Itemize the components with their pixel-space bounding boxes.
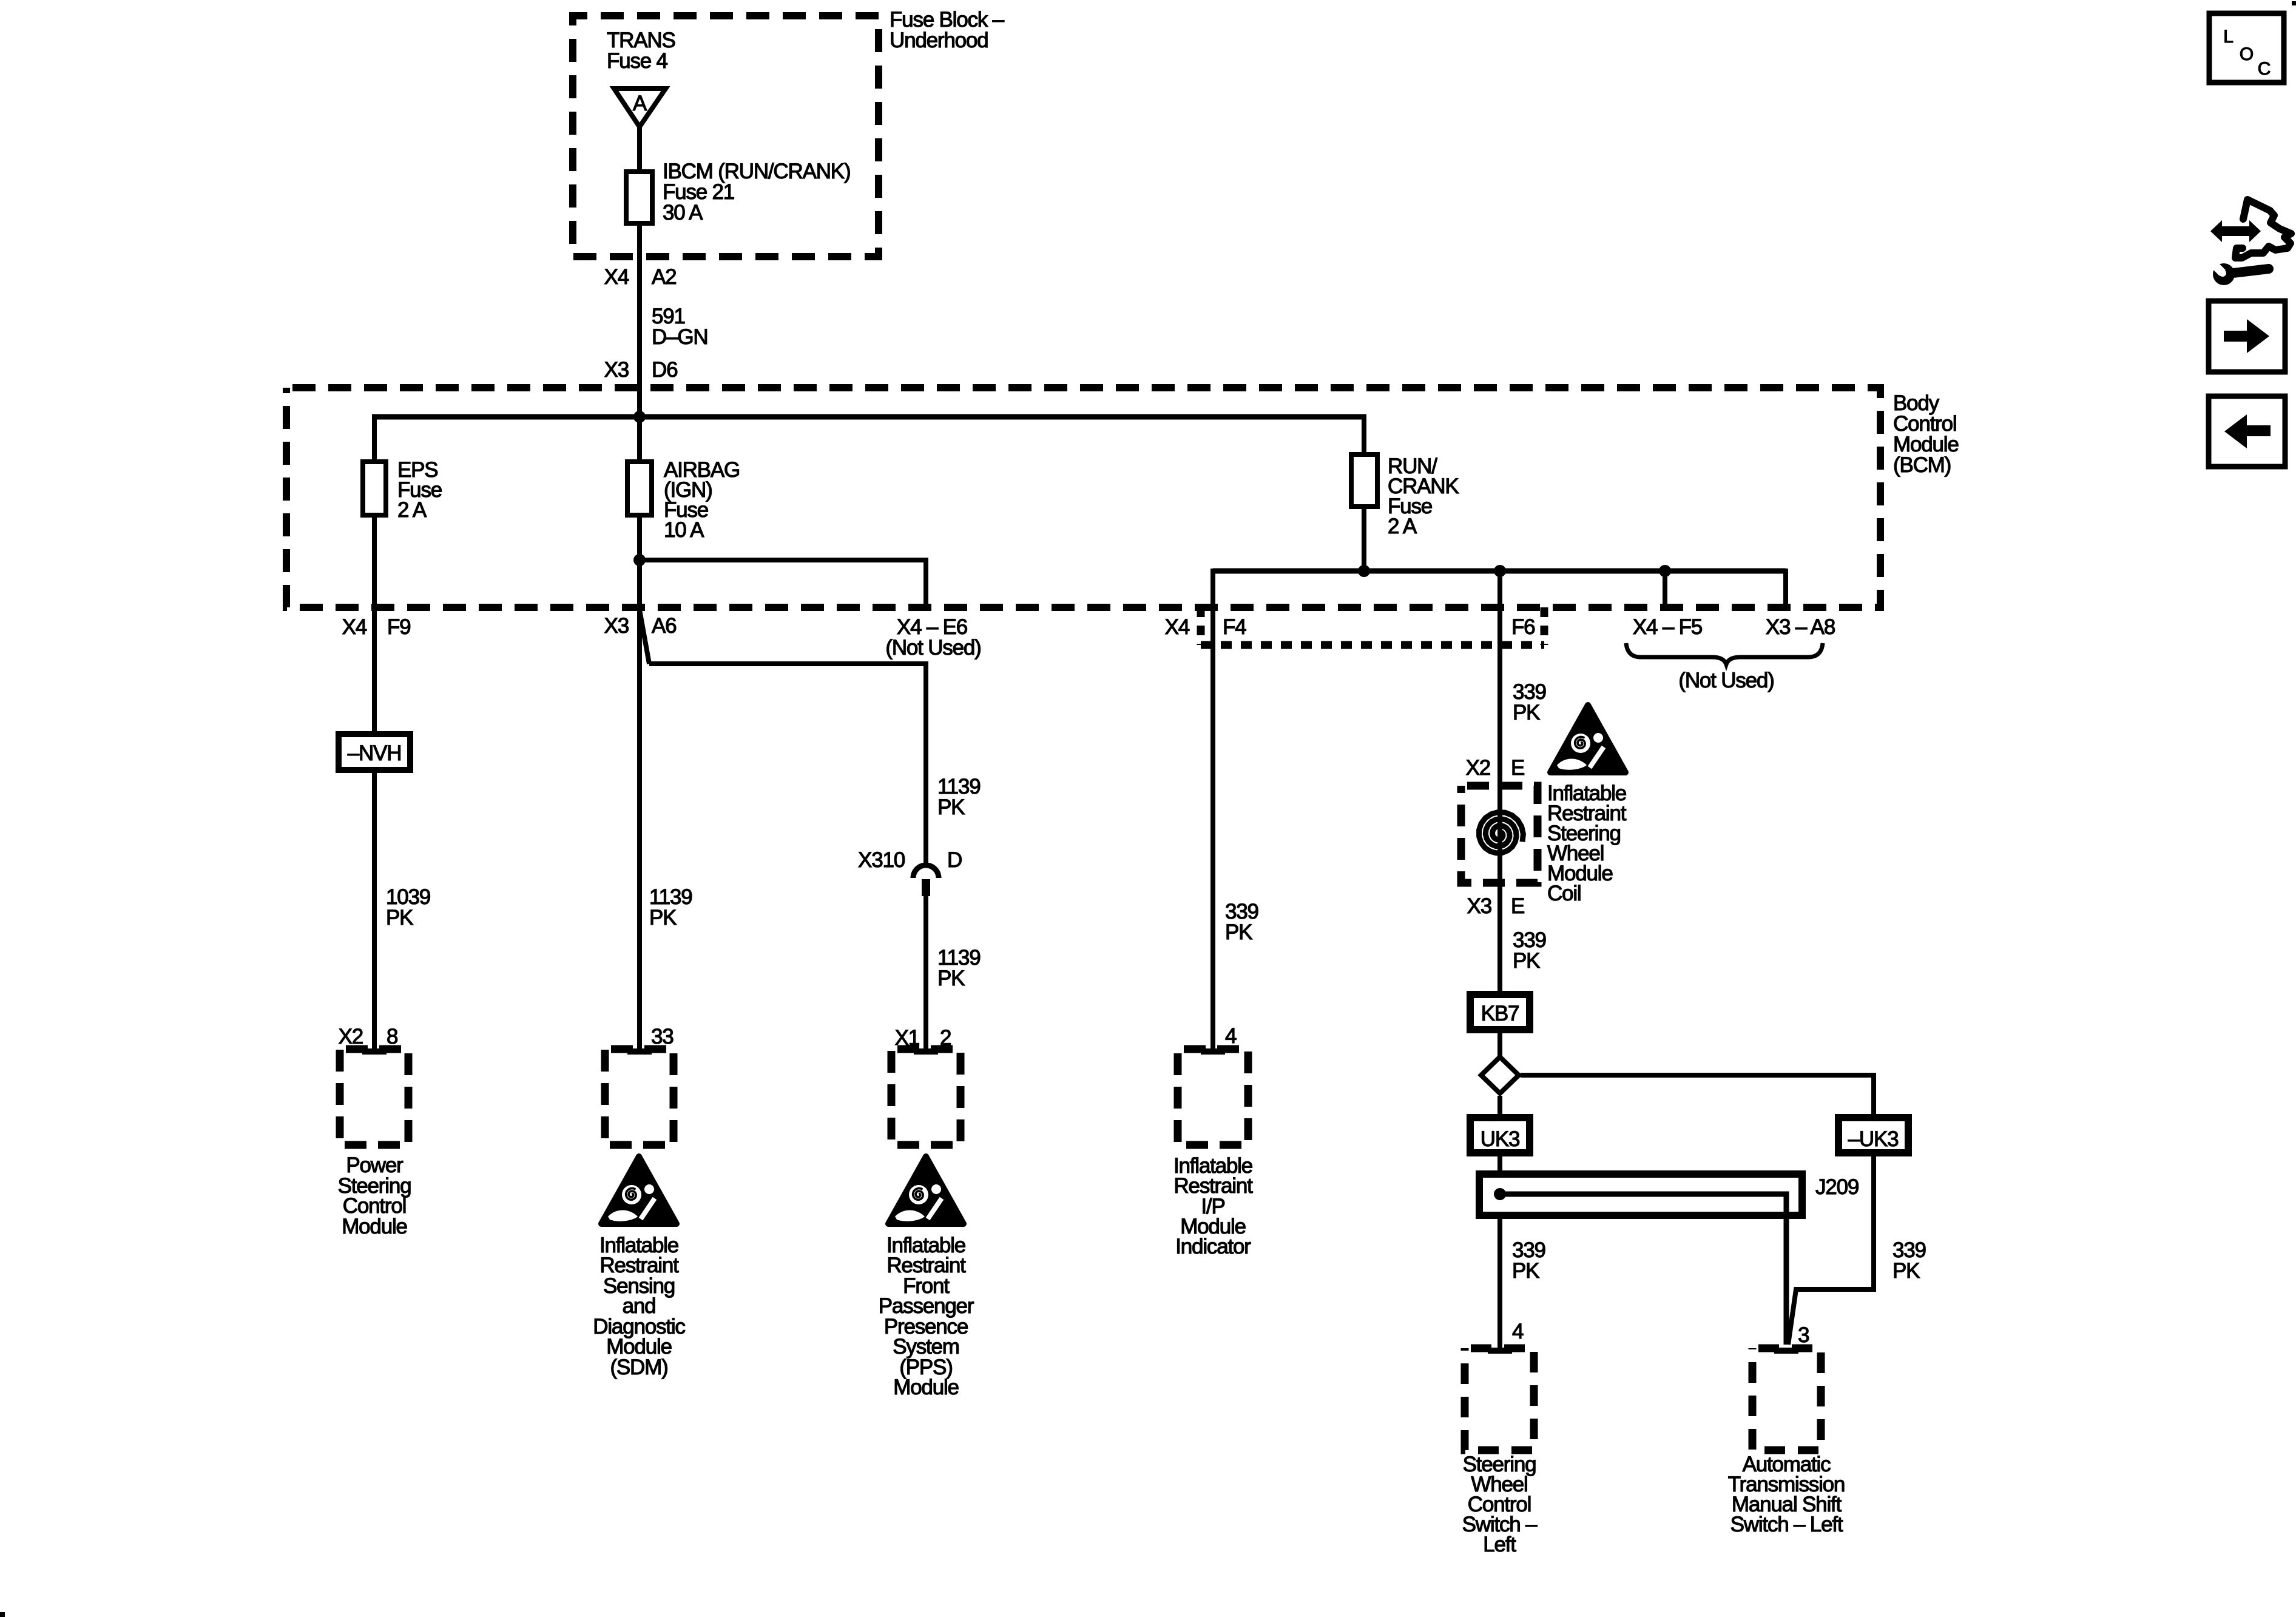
- inflatable restraint I/P module indicator dashed box: [1178, 1049, 1248, 1145]
- connector dotted separator left: [1197, 607, 1205, 645]
- svg-text:Module: Module: [893, 1376, 959, 1399]
- svg-text:(SDM): (SDM): [610, 1355, 667, 1379]
- SDM connector pin tick: [627, 1048, 652, 1055]
- svg-text:3: 3: [1798, 1323, 1809, 1347]
- service tools icon (wrench): [2213, 263, 2235, 285]
- svg-text:4: 4: [1225, 1024, 1237, 1048]
- svg-text:(BCM): (BCM): [1893, 453, 1951, 477]
- wire X310 to PPS module: [923, 896, 928, 1050]
- svg-text:F9: F9: [387, 615, 410, 639]
- coil spiral symbol: [1479, 812, 1524, 853]
- wire KB7 to diamond: [1497, 1030, 1502, 1057]
- automatic transmission manual shift switch dashed box: [1752, 1348, 1821, 1450]
- svg-text:X4: X4: [342, 615, 367, 639]
- wire -UK3 to shift switch pin 3: [1788, 1153, 1874, 1345]
- svg-text:Switch – Left: Switch – Left: [1730, 1513, 1843, 1536]
- wire diamond to UK3: [1497, 1096, 1502, 1120]
- svg-text:A6: A6: [652, 614, 676, 638]
- svg-text:UK3: UK3: [1481, 1127, 1520, 1151]
- in-line connector X310 arc: [913, 865, 939, 878]
- svg-text:33: 33: [651, 1025, 674, 1048]
- next page arrow box: [2209, 301, 2285, 372]
- svg-text:C: C: [2258, 59, 2271, 79]
- svg-text:PK: PK: [1893, 1259, 1920, 1283]
- svg-text:PK: PK: [1512, 1259, 1539, 1283]
- wire sub-bus to I/P indicator (F4): [1210, 569, 1215, 1050]
- sub-bus wire: [1213, 569, 1786, 574]
- svg-text:X4: X4: [604, 265, 629, 289]
- svg-text:F6: F6: [1511, 615, 1535, 639]
- svg-text:E: E: [1511, 894, 1524, 918]
- svg-text:E: E: [1511, 756, 1524, 780]
- svg-text:–UK3: –UK3: [1848, 1127, 1899, 1151]
- svg-text:PK: PK: [386, 906, 413, 930]
- option box -NVH: [339, 734, 410, 770]
- svg-text:X3: X3: [604, 614, 629, 638]
- svg-text:X2: X2: [1466, 756, 1490, 780]
- fuse F21 IBCM RUN/CRANK 30A: [626, 172, 652, 223]
- brace under not-used stubs: [1626, 643, 1823, 664]
- junction node below airbag fuse: [633, 554, 646, 566]
- page corner mark top right: [2292, 1, 2296, 5]
- junction node under RUN/CRANK fuse: [1358, 565, 1370, 577]
- svg-text:–NVH: –NVH: [348, 741, 402, 765]
- svg-text:X4 – F5: X4 – F5: [1633, 615, 1702, 639]
- steering wheel module coil dashed box: [1461, 786, 1538, 883]
- steering wheel control switch dashed box: [1465, 1348, 1534, 1450]
- previous page arrow box: [2209, 396, 2285, 467]
- junction node inside J209: [1494, 1188, 1506, 1200]
- fuse EPS 2A: [363, 462, 386, 515]
- wire branch diagonal from X3-A6: [640, 610, 649, 664]
- wire F6 to KB7: [1497, 571, 1502, 997]
- shift switch pin tick: [1774, 1348, 1798, 1354]
- option box UK3: [1470, 1118, 1530, 1153]
- body control module (BCM) dashed box: [286, 388, 1880, 607]
- svg-text:F4: F4: [1223, 615, 1246, 639]
- wire stub X4-F5: [1663, 571, 1667, 607]
- svg-text:(Not Used): (Not Used): [885, 636, 981, 660]
- PPS connector pin tick: [914, 1048, 938, 1055]
- steering wheel control switch pin tick: [1488, 1348, 1512, 1354]
- junction node X4-F5 stub: [1659, 565, 1671, 577]
- airbag warning triangle (SDM): [601, 1156, 677, 1224]
- svg-text:PK: PK: [937, 795, 965, 819]
- wire bus to RUN/CRANK fuse: [1362, 414, 1366, 457]
- svg-text:PK: PK: [649, 906, 677, 930]
- svg-text:PK: PK: [1513, 949, 1540, 973]
- connector dotted separator right: [1541, 607, 1548, 645]
- wire branch to PPS drop: [649, 664, 926, 865]
- svg-text:X310: X310: [858, 848, 905, 872]
- svg-text:J209: J209: [1815, 1175, 1859, 1199]
- svg-text:Coil: Coil: [1547, 882, 1581, 905]
- page corner mark bottom left: [0, 1612, 5, 1617]
- airbag warning triangle (steering wheel coil): [1550, 705, 1626, 772]
- svg-text:O: O: [2240, 44, 2253, 64]
- wire AIRBAG fuse to junction: [637, 515, 642, 562]
- wire triangle A to fuse 21: [637, 127, 642, 174]
- battery feed triangle A: [614, 89, 666, 127]
- junction node F6 drop: [1494, 565, 1506, 577]
- airbag warning triangle (PPS): [888, 1156, 964, 1224]
- fuse RUN/CRANK 2A: [1351, 454, 1377, 507]
- wire bus to EPS fuse: [372, 414, 377, 464]
- svg-text:Indicator: Indicator: [1175, 1235, 1251, 1258]
- svg-text:Module: Module: [342, 1215, 407, 1238]
- power steering control module dashed box: [340, 1049, 408, 1145]
- svg-text:2 A: 2 A: [1388, 515, 1417, 538]
- option box -UK3: [1838, 1118, 1908, 1153]
- wire stub to X4-E6 not used: [640, 560, 926, 607]
- power steering control module connector pin tick: [362, 1048, 387, 1055]
- svg-text:PK: PK: [1513, 701, 1540, 724]
- wire RUN/CRANK fuse to sub-bus: [1362, 507, 1366, 573]
- svg-text:Underhood: Underhood: [890, 29, 988, 52]
- PPS module dashed box: [891, 1049, 961, 1145]
- diamond splice symbol: [1481, 1057, 1519, 1093]
- svg-text:X3: X3: [1467, 894, 1491, 918]
- wire EPS fuse to -NVH option box: [372, 515, 377, 737]
- svg-text:KB7: KB7: [1481, 1002, 1519, 1025]
- svg-text:L: L: [2223, 27, 2233, 47]
- svg-text:A2: A2: [652, 265, 676, 289]
- svg-text:D–GN: D–GN: [652, 325, 707, 349]
- service tools icon (double arrow): [2210, 220, 2261, 242]
- svg-text:D6: D6: [652, 358, 677, 382]
- wire fuse 21 to bus (circuit 591): [637, 223, 642, 419]
- svg-text:X3 – A8: X3 – A8: [1766, 615, 1835, 639]
- I/P indicator connector pin tick: [1201, 1048, 1225, 1055]
- connector dotted bottom: [1201, 641, 1544, 649]
- wire UK3 to J209: [1497, 1153, 1502, 1176]
- fuse block - underhood (dashed box): [573, 16, 879, 257]
- fuse AIRBAG IGN 10A: [627, 462, 652, 515]
- SDM dashed box: [605, 1049, 674, 1145]
- splice pack J209 box: [1479, 1174, 1802, 1215]
- service tools icon (hand outline): [2235, 200, 2291, 258]
- svg-text:8: 8: [387, 1025, 397, 1048]
- svg-text:Left: Left: [1483, 1533, 1516, 1556]
- wire diamond to -UK3: [1521, 1075, 1874, 1120]
- svg-text:2 A: 2 A: [397, 498, 427, 522]
- junction node on bus: [633, 411, 646, 423]
- wire J209 to steering wheel control switch: [1497, 1215, 1502, 1349]
- svg-text:X2: X2: [339, 1025, 363, 1048]
- option box KB7: [1470, 994, 1530, 1030]
- svg-text:10 A: 10 A: [664, 518, 704, 542]
- svg-text:Fuse 4: Fuse 4: [607, 49, 668, 73]
- svg-text:A: A: [633, 92, 647, 115]
- LOC reference box: [2209, 13, 2284, 83]
- wire -NVH to power steering control module: [372, 770, 377, 1050]
- svg-text:(Not Used): (Not Used): [1678, 669, 1774, 692]
- svg-text:30 A: 30 A: [663, 201, 703, 224]
- svg-text:D: D: [947, 848, 962, 872]
- wire J209 tap to shift switch pin 3: [1500, 1194, 1786, 1345]
- in-line connector X310 pin bar: [922, 879, 930, 896]
- bus wire inside BCM: [372, 414, 1366, 420]
- svg-text:4: 4: [1512, 1320, 1524, 1343]
- wire stub X3-A8: [1783, 571, 1786, 607]
- wire bus to AIRBAG fuse: [637, 417, 642, 464]
- svg-text:X3: X3: [604, 358, 629, 382]
- svg-text:X4: X4: [1165, 615, 1190, 639]
- wire airbag fuse to SDM: [637, 560, 642, 1050]
- svg-text:PK: PK: [1225, 920, 1252, 944]
- svg-text:PK: PK: [937, 967, 965, 990]
